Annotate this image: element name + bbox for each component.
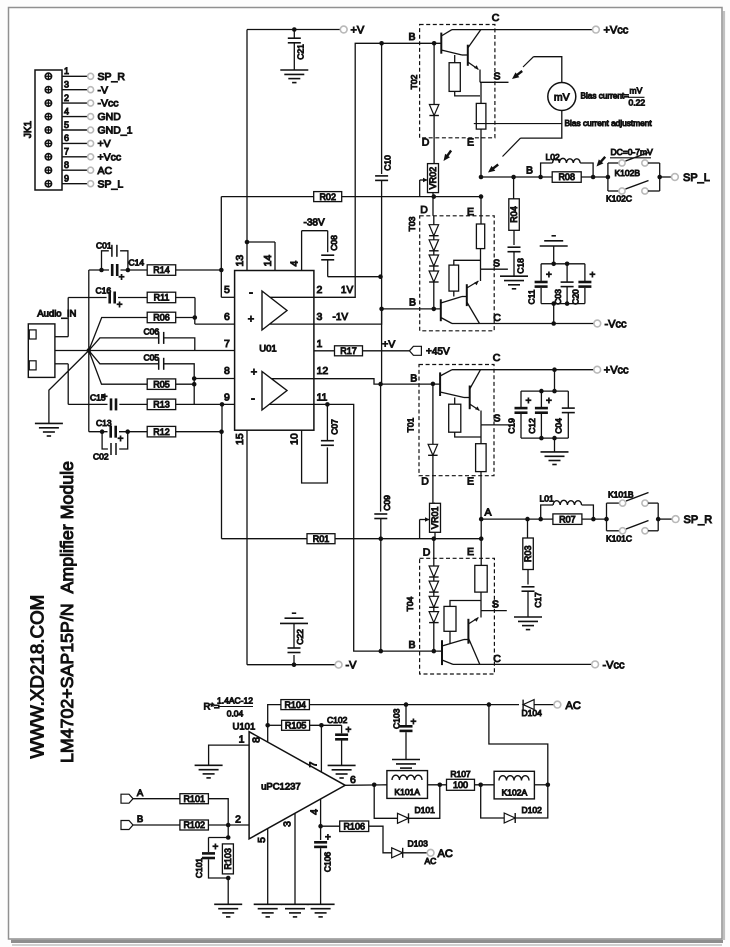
svg-text:Audio_IN: Audio_IN: [37, 309, 76, 320]
svg-text:-38V: -38V: [304, 218, 325, 229]
svg-text:R04: R04: [509, 206, 519, 223]
svg-text:LM4702+SAP15P/N Amplifier Mod: LM4702+SAP15P/N Amplifier Module: [57, 461, 77, 763]
svg-text:R06: R06: [153, 313, 170, 323]
svg-text:D: D: [423, 547, 431, 559]
svg-text:2: 2: [317, 284, 323, 296]
svg-text:C01: C01: [96, 241, 112, 251]
svg-text:S: S: [493, 413, 500, 425]
svg-text:5: 5: [256, 837, 268, 843]
svg-text:WWW.XD218.COM: WWW.XD218.COM: [27, 595, 48, 759]
svg-text:0.22: 0.22: [629, 97, 646, 107]
svg-text:K102A: K102A: [502, 788, 528, 798]
svg-text:7: 7: [64, 147, 69, 157]
svg-text:+: +: [526, 396, 532, 407]
svg-text:C19: C19: [507, 418, 517, 434]
svg-text:C106: C106: [323, 852, 333, 873]
svg-text:C12: C12: [527, 418, 537, 434]
svg-text:3: 3: [64, 80, 69, 90]
svg-text:Bias current=: Bias current=: [581, 92, 630, 101]
svg-text:C22: C22: [295, 629, 305, 645]
svg-text:AC: AC: [438, 848, 453, 860]
svg-text:R17: R17: [340, 346, 357, 356]
svg-text:A: A: [137, 788, 144, 799]
svg-text:uPC1237: uPC1237: [261, 782, 301, 793]
svg-text:+V: +V: [351, 25, 365, 37]
svg-text:1: 1: [64, 66, 69, 76]
svg-text:T04: T04: [405, 596, 415, 611]
svg-text:R07: R07: [559, 514, 576, 524]
svg-text:-: -: [249, 285, 253, 299]
svg-text:+V: +V: [98, 138, 111, 150]
svg-text:0.04: 0.04: [227, 709, 244, 719]
svg-text:VR01: VR01: [430, 507, 440, 530]
svg-text:R13: R13: [153, 400, 170, 410]
svg-text:R12: R12: [153, 427, 170, 437]
svg-text:R11: R11: [154, 293, 170, 303]
svg-text:D104: D104: [522, 708, 543, 718]
svg-text:1V: 1V: [341, 285, 354, 296]
svg-text:-V: -V: [98, 84, 109, 96]
svg-text:8: 8: [251, 737, 263, 743]
svg-text:+: +: [590, 270, 596, 281]
svg-text:AC: AC: [566, 700, 581, 712]
svg-text:Bias current adjustment: Bias current adjustment: [565, 118, 653, 128]
svg-text:C17: C17: [533, 592, 543, 608]
svg-text:2: 2: [235, 814, 241, 826]
svg-text:D: D: [421, 476, 429, 488]
svg-text:R05: R05: [153, 379, 170, 389]
svg-text:C102: C102: [327, 715, 348, 725]
svg-text:K101B: K101B: [608, 490, 634, 500]
svg-text:C: C: [493, 653, 501, 665]
svg-text:7: 7: [308, 761, 320, 767]
svg-text:1: 1: [239, 734, 245, 746]
svg-text:E: E: [467, 476, 474, 488]
svg-text:C: C: [492, 12, 500, 24]
svg-text:B: B: [408, 639, 415, 651]
svg-text:6: 6: [350, 774, 356, 786]
svg-text:K101C: K101C: [606, 534, 632, 544]
svg-text:+: +: [213, 842, 219, 853]
svg-text:B: B: [409, 297, 416, 309]
svg-text:D102: D102: [522, 805, 543, 815]
svg-text:AC: AC: [98, 165, 113, 177]
svg-text:L02: L02: [546, 152, 560, 162]
svg-text:C06: C06: [144, 327, 160, 337]
svg-text:+Vcc: +Vcc: [98, 151, 122, 163]
svg-text:R106: R106: [343, 821, 365, 831]
svg-text:7: 7: [224, 338, 230, 350]
svg-text:4: 4: [309, 809, 321, 815]
svg-text:+: +: [102, 392, 108, 403]
svg-text:AC: AC: [425, 856, 437, 866]
svg-text:VR02: VR02: [428, 167, 438, 190]
svg-text:+: +: [411, 717, 417, 728]
svg-text:SP_L: SP_L: [98, 178, 124, 190]
svg-text:15: 15: [234, 433, 246, 445]
svg-text:1.4AC-12: 1.4AC-12: [217, 696, 253, 706]
svg-text:D101: D101: [415, 805, 436, 815]
svg-text:D: D: [420, 204, 428, 216]
svg-text:SP_R: SP_R: [684, 514, 713, 526]
svg-text:+: +: [546, 270, 552, 281]
svg-text:K102C: K102C: [606, 194, 632, 204]
svg-text:+: +: [251, 367, 257, 379]
svg-text:S: S: [492, 599, 499, 611]
svg-text:+45V: +45V: [426, 347, 450, 358]
svg-text:-Vcc: -Vcc: [603, 659, 626, 671]
svg-text:C: C: [493, 352, 501, 364]
svg-text:4: 4: [64, 106, 69, 116]
svg-text:+V: +V: [382, 339, 395, 351]
svg-text:C03: C03: [553, 289, 563, 305]
svg-text:GND: GND: [98, 111, 122, 123]
svg-text:E: E: [467, 137, 474, 149]
svg-text:U101: U101: [233, 722, 256, 733]
svg-text:3: 3: [317, 311, 323, 323]
svg-text:C08: C08: [329, 235, 339, 251]
svg-text:K101A: K101A: [394, 787, 420, 797]
svg-text:C21: C21: [296, 44, 306, 60]
svg-text:9: 9: [64, 174, 69, 184]
svg-text:R101: R101: [183, 794, 205, 804]
svg-text:11: 11: [317, 392, 328, 404]
svg-text:14: 14: [262, 255, 274, 267]
svg-text:13: 13: [234, 255, 246, 267]
svg-text:R02: R02: [319, 192, 336, 202]
svg-text:GND_1: GND_1: [98, 125, 133, 137]
svg-text:SP_R: SP_R: [98, 71, 126, 83]
svg-text:1: 1: [317, 338, 323, 350]
svg-text:C05: C05: [144, 353, 160, 363]
svg-text:8: 8: [224, 365, 230, 377]
svg-text:S: S: [493, 71, 500, 83]
svg-text:-V: -V: [346, 660, 358, 672]
svg-text:mV: mV: [554, 91, 570, 103]
svg-text:R14: R14: [153, 265, 170, 275]
svg-text:9: 9: [224, 392, 230, 404]
svg-text:R01: R01: [313, 534, 330, 544]
svg-text:6: 6: [224, 311, 230, 323]
svg-text:JK1: JK1: [23, 120, 34, 138]
svg-text:T02: T02: [409, 74, 419, 89]
svg-text:B: B: [408, 31, 415, 43]
svg-text:A: A: [484, 507, 491, 519]
svg-text:C18: C18: [516, 258, 526, 274]
svg-text:-: -: [251, 391, 255, 405]
svg-text:D: D: [422, 137, 430, 149]
svg-text:2: 2: [64, 93, 69, 103]
svg-text:R03: R03: [523, 546, 533, 563]
svg-text:4: 4: [289, 261, 301, 267]
svg-text:C09: C09: [382, 495, 392, 511]
svg-text:mV: mV: [630, 86, 643, 96]
svg-text:C02: C02: [93, 452, 109, 462]
svg-text:+: +: [325, 833, 331, 844]
svg-text:100: 100: [453, 780, 468, 790]
svg-text:L01: L01: [540, 494, 554, 504]
svg-text:SP_L: SP_L: [683, 172, 710, 184]
svg-text:R08: R08: [558, 172, 575, 182]
svg-text:+: +: [119, 273, 125, 284]
svg-text:DC=0-7mV: DC=0-7mV: [611, 147, 654, 157]
svg-text:5: 5: [64, 120, 69, 130]
svg-text:B: B: [137, 814, 143, 825]
svg-text:E: E: [467, 546, 474, 558]
svg-text:R107: R107: [450, 769, 471, 779]
svg-text:C20: C20: [571, 289, 581, 305]
svg-text:+: +: [118, 434, 124, 445]
svg-text:E: E: [467, 206, 474, 218]
svg-text:C11: C11: [527, 289, 537, 304]
svg-text:+: +: [248, 314, 254, 326]
svg-text:+: +: [117, 300, 123, 311]
svg-text:C103: C103: [392, 708, 402, 729]
svg-text:K102B: K102B: [615, 168, 641, 178]
svg-text:C: C: [493, 312, 501, 324]
svg-text:+: +: [546, 396, 552, 407]
svg-text:D103: D103: [408, 839, 429, 849]
svg-text:-1V: -1V: [333, 312, 349, 323]
svg-text:C101: C101: [194, 858, 204, 879]
svg-text:3: 3: [282, 821, 294, 827]
svg-text:R103: R103: [223, 848, 233, 870]
svg-text:12: 12: [317, 365, 329, 377]
svg-text:C07: C07: [330, 419, 340, 435]
svg-text:R104: R104: [284, 700, 306, 710]
svg-text:C14: C14: [129, 258, 145, 268]
svg-text:5: 5: [224, 284, 230, 296]
svg-text:T01: T01: [406, 417, 416, 432]
svg-text:C10: C10: [383, 155, 393, 171]
svg-text:+Vcc: +Vcc: [604, 365, 629, 377]
svg-text:S: S: [493, 258, 500, 270]
svg-text:8: 8: [64, 160, 69, 170]
svg-text:-Vcc: -Vcc: [605, 319, 628, 331]
svg-text:T03: T03: [407, 216, 417, 231]
svg-text:B: B: [526, 165, 533, 177]
svg-text:B: B: [410, 373, 417, 385]
svg-text:R105: R105: [285, 721, 307, 731]
svg-text:6: 6: [64, 133, 69, 143]
svg-text:R102: R102: [183, 820, 205, 830]
svg-text:10: 10: [289, 433, 301, 445]
svg-text:+Vcc: +Vcc: [604, 25, 629, 37]
svg-text:-Vcc: -Vcc: [98, 98, 119, 110]
svg-text:C04: C04: [554, 418, 564, 434]
svg-text:+: +: [346, 725, 352, 736]
svg-text:U01: U01: [259, 344, 276, 355]
